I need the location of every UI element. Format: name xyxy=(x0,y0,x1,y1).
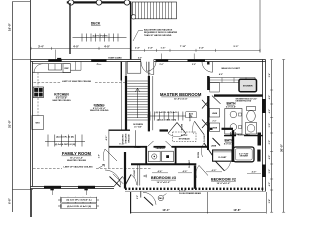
right wall xyxy=(262,60,264,192)
svg-text:8'-0"x5'-0": 8'-0"x5'-0" xyxy=(224,144,234,146)
laundry left wall xyxy=(145,147,147,165)
svg-text:16'-0": 16'-0" xyxy=(8,22,12,31)
svg-text:9'-8": 9'-8" xyxy=(269,199,271,204)
svg-text:W/O: W/O xyxy=(35,123,40,125)
stair right wall xyxy=(148,62,150,76)
svg-text:VAULTED CEILING: VAULTED CEILING xyxy=(90,109,109,112)
pantry nook box xyxy=(108,130,110,147)
deck post 3 xyxy=(124,0,129,5)
bottom dimension line xyxy=(131,212,267,214)
svg-text:(4) 2x6 DFL #2 (N) 4x10: (4) 2x6 DFL #2 (N) 4x10 xyxy=(156,111,178,114)
svg-text:4'-6": 4'-6" xyxy=(105,136,108,141)
stair left wall xyxy=(125,62,127,76)
bath hall wall xyxy=(210,128,213,130)
right upper roof line xyxy=(259,0,261,53)
bedroom2 door dim xyxy=(178,172,192,174)
counter cells right of REF xyxy=(71,69,82,71)
svg-text:SHELVES: SHELVES xyxy=(126,133,128,143)
svg-text:31'-0": 31'-0" xyxy=(8,119,12,128)
svg-text:BEDROOM #2: BEDROOM #2 xyxy=(211,177,236,181)
svg-text:4'-0": 4'-0" xyxy=(219,73,223,76)
svg-text:MASTER BEDROOM: MASTER BEDROOM xyxy=(160,92,202,97)
svg-text:CLOSET: CLOSET xyxy=(189,159,191,168)
svg-text:2'-0": 2'-0" xyxy=(213,120,217,122)
svg-text:BROOM: BROOM xyxy=(129,134,131,142)
svg-text:BATH: BATH xyxy=(224,139,234,143)
svg-text:DINING: DINING xyxy=(94,103,106,107)
svg-text:(4) 2x12 DFL #2 4x12 (N): (4) 2x12 DFL #2 4x12 (N) xyxy=(67,205,91,208)
hall wall left xyxy=(109,129,131,131)
lower stair door leaf xyxy=(144,197,153,206)
hall wall mid xyxy=(160,129,169,131)
walk-in closet shelf left xyxy=(210,83,220,93)
fridge REF xyxy=(63,64,71,73)
family room window 2 xyxy=(78,186,95,189)
deck top rail xyxy=(67,1,132,3)
svg-text:REF: REF xyxy=(65,68,70,70)
flush framed beam note xyxy=(179,189,201,195)
svg-text:5'-0": 5'-0" xyxy=(269,169,271,174)
left dim tick mid xyxy=(13,59,31,61)
svg-text:LAUNDRY: LAUNDRY xyxy=(156,147,166,150)
hall linen closet box xyxy=(213,150,232,161)
svg-text:9'-4": 9'-4" xyxy=(268,73,271,78)
bath2 plumbing wall xyxy=(258,133,262,146)
svg-text:12'-0"x10'-0": 12'-0"x10'-0" xyxy=(217,183,231,185)
bath2 note xyxy=(230,131,251,136)
bottom beam callout row1 xyxy=(58,199,99,201)
bottom beam callout row2 xyxy=(58,205,99,207)
bottom extension lines xyxy=(130,192,132,214)
svg-text:3'-0": 3'-0" xyxy=(98,154,100,158)
svg-text:VAULTED CEILING: VAULTED CEILING xyxy=(52,99,71,102)
svg-text:3'-0": 3'-0" xyxy=(192,64,196,66)
svg-text:VAULTED CEILING: VAULTED CEILING xyxy=(67,159,87,162)
laundry door leaves xyxy=(148,141,154,147)
svg-text:PANTRY: PANTRY xyxy=(122,134,125,143)
cooktop xyxy=(33,87,43,98)
family room bottom wall xyxy=(31,186,115,188)
bedroom3 closet door leaf xyxy=(125,175,132,187)
svg-text:CLOSET: CLOSET xyxy=(189,112,191,121)
lower wall stub xyxy=(140,192,142,198)
master door arc 1 xyxy=(147,62,157,71)
svg-text:1'-6": 1'-6" xyxy=(161,48,166,50)
master toilet xyxy=(247,107,256,111)
svg-text:5'-0": 5'-0" xyxy=(269,123,271,128)
wall oven xyxy=(32,116,44,130)
bedrooms divider wall xyxy=(194,165,196,188)
master closet wall xyxy=(207,62,209,65)
linen box 1 xyxy=(210,109,220,118)
left dim tick top xyxy=(13,1,31,3)
svg-text:2'-8": 2'-8" xyxy=(148,48,153,50)
svg-text:(4) 2x6 4 OB'S #2 (N): (4) 2x6 4 OB'S #2 (N) xyxy=(157,118,177,121)
window center tick kitchen xyxy=(55,50,57,60)
svg-text:10'-8": 10'-8" xyxy=(233,208,241,212)
laundry bottom wall xyxy=(131,163,196,165)
svg-text:CLOSET: CLOSET xyxy=(218,157,227,159)
shower xyxy=(239,79,257,91)
deck post 1 xyxy=(68,0,73,5)
svg-text:LINEN: LINEN xyxy=(211,145,217,147)
svg-text:3'-4": 3'-4" xyxy=(38,44,45,48)
svg-text:BEDROOM #3: BEDROOM #3 xyxy=(151,176,176,180)
stair newel circle xyxy=(131,15,135,19)
svg-text:(4) 2x6 4 OB'S #2 (N): (4) 2x6 4 OB'S #2 (N) xyxy=(55,143,76,146)
linen box 2 xyxy=(210,123,220,132)
stair treads xyxy=(127,81,148,120)
entry closet xyxy=(127,62,141,73)
master tub xyxy=(246,123,257,135)
window master 1 xyxy=(156,59,169,62)
family room door upper xyxy=(105,149,117,161)
bath2 shower xyxy=(234,147,255,162)
lower-left basement wall xyxy=(30,189,32,217)
svg-text:4'-0": 4'-0" xyxy=(268,182,271,187)
bedroom2 dim right xyxy=(247,173,261,175)
family room east edge xyxy=(108,147,110,168)
svg-text:12'-8"x13'-4": 12'-8"x13'-4" xyxy=(174,98,188,101)
svg-text:4'-0": 4'-0" xyxy=(104,44,111,48)
left dimension line xyxy=(12,2,14,213)
svg-text:6'-8": 6'-8" xyxy=(9,197,12,203)
svg-text:LINEN: LINEN xyxy=(212,113,218,115)
right dim line inner xyxy=(271,60,273,213)
bedroom3 closet partition xyxy=(137,164,139,185)
balusters note xyxy=(144,29,178,37)
upper right dimension line xyxy=(131,49,260,51)
deck dimension line xyxy=(31,47,131,49)
hall closet door swing upper xyxy=(213,138,221,146)
svg-text:4 x 1 G: 4 x 1 G xyxy=(179,189,186,192)
svg-text:CLOSET: CLOSET xyxy=(204,133,206,142)
svg-text:4'-0": 4'-0" xyxy=(183,170,188,173)
svg-text:5'-10": 5'-10" xyxy=(119,143,124,145)
master door arc 2 xyxy=(202,62,213,72)
bath2 top wall xyxy=(224,135,236,137)
dining chase wall xyxy=(120,62,122,81)
svg-text:6'-0"x9'-4": 6'-0"x9'-4" xyxy=(226,105,236,108)
svg-text:ATTIC: ATTIC xyxy=(181,134,188,137)
kitchen counter dashed edge xyxy=(37,73,39,87)
master vanity xyxy=(225,109,242,135)
dryer xyxy=(162,151,174,162)
svg-text:BATH: BATH xyxy=(226,101,236,105)
closet door leaf xyxy=(215,161,224,171)
linen door X 2 xyxy=(202,120,210,129)
master beam callout xyxy=(147,115,186,117)
svg-text:KITCHEN: KITCHEN xyxy=(54,93,69,97)
kitchen sink xyxy=(49,64,62,70)
svg-text:LIMIT OF VAULTED CEILING: LIMIT OF VAULTED CEILING xyxy=(62,80,92,83)
svg-text:LINEN: LINEN xyxy=(135,147,142,149)
svg-text:(4) 2x10 DFL #2 (N) 4" (L): (4) 2x10 DFL #2 (N) 4" (L) xyxy=(67,199,92,202)
svg-text:SHOWER: SHOWER xyxy=(240,156,249,158)
family room window 1 xyxy=(44,186,61,189)
svg-text:6'-0": 6'-0" xyxy=(269,140,271,145)
svg-text:FAU: FAU xyxy=(159,197,164,200)
svg-text:4'-6": 4'-6" xyxy=(268,109,271,114)
svg-text:STAIR GUARD: STAIR GUARD xyxy=(108,56,122,59)
window kitchen xyxy=(48,59,61,62)
stair guard line xyxy=(152,76,154,130)
top wall xyxy=(31,59,266,61)
deck stairs xyxy=(132,2,176,19)
stair up arrow xyxy=(137,88,139,118)
svg-text:4x4 P.T. POSTS: 4x4 P.T. POSTS xyxy=(92,35,108,38)
svg-text:SHOWER: SHOWER xyxy=(243,86,253,88)
svg-text:ROOM: ROOM xyxy=(198,152,200,158)
walk-in closet shelf top xyxy=(210,78,255,83)
bath door leaf xyxy=(212,96,221,104)
svg-text:LIMIT OF VAULTED CEILING: LIMIT OF VAULTED CEILING xyxy=(64,165,94,168)
svg-text:4'-6": 4'-6" xyxy=(268,95,271,100)
svg-text:UNOBSTRUCTED: UNOBSTRUCTED xyxy=(236,101,252,103)
svg-text:REQUIRED IF DECK IS GREATER: REQUIRED IF DECK IS GREATER xyxy=(144,31,178,34)
svg-text:@ 7 3/4": @ 7 3/4" xyxy=(134,125,142,128)
svg-text:13'-4": 13'-4" xyxy=(162,208,170,212)
window master 2 xyxy=(188,59,206,62)
svg-text:5'-0": 5'-0" xyxy=(137,195,139,199)
deck left wall xyxy=(30,0,32,60)
closet/bath wall xyxy=(214,94,263,96)
shear wall segment xyxy=(91,59,106,62)
svg-text:WALK-IN CLOSET: WALK-IN CLOSET xyxy=(221,67,240,70)
svg-text:THAN 30" ABOVE GROUND: THAN 30" ABOVE GROUND xyxy=(144,34,172,37)
family room door (right end) xyxy=(114,177,123,187)
left wall xyxy=(30,60,32,190)
svg-text:2'-8": 2'-8" xyxy=(135,48,140,50)
right wall window 3 xyxy=(262,165,266,178)
svg-text:4'-6": 4'-6" xyxy=(158,170,163,173)
kitchen counter band xyxy=(32,64,70,73)
washer xyxy=(149,151,161,162)
right dim line outer xyxy=(283,60,285,213)
bedroom dotted bearing wall xyxy=(125,188,265,190)
svg-text:FLUSH FRAMED WALL: FLUSH FRAMED WALL xyxy=(230,134,251,137)
hall closet column wall xyxy=(207,130,209,150)
svg-text:10'-0"x10'-0": 10'-0"x10'-0" xyxy=(157,182,171,184)
family room door lower xyxy=(110,177,121,188)
svg-text:LINEN: LINEN xyxy=(212,127,218,129)
svg-text:4'-0": 4'-0" xyxy=(252,171,257,174)
entry door arc xyxy=(141,62,154,75)
svg-text:CLOSET: CLOSET xyxy=(134,169,136,178)
deck post 2 xyxy=(96,0,101,5)
svg-text:BALUSTERS AND RAILINGS: BALUSTERS AND RAILINGS xyxy=(144,29,173,32)
deck divider wall xyxy=(69,3,71,54)
svg-text:7'-10": 7'-10" xyxy=(180,46,186,48)
bedroom2 door dim b xyxy=(206,171,222,173)
svg-text:FAMILY ROOM: FAMILY ROOM xyxy=(62,151,92,156)
svg-text:FLUSH FRAMED BEAM: FLUSH FRAMED BEAM xyxy=(179,192,201,195)
attic storage box xyxy=(173,132,197,142)
hall door master xyxy=(195,121,204,134)
svg-text:3'-0": 3'-0" xyxy=(159,64,163,66)
hall door X 1 xyxy=(168,123,177,134)
svg-text:ROOM: ROOM xyxy=(182,124,184,131)
bedroom3 door dim xyxy=(152,172,168,174)
right wall window 1 xyxy=(262,99,266,113)
svg-text:DECK: DECK xyxy=(91,22,101,26)
svg-text:9'-0": 9'-0" xyxy=(234,46,239,48)
svg-text:4'-0": 4'-0" xyxy=(268,155,271,160)
hall bottom wall xyxy=(109,146,147,148)
entry door opening xyxy=(141,59,154,62)
svg-text:(4) 2x6 DFL #2 (N): (4) 2x6 DFL #2 (N) xyxy=(56,136,74,139)
left dim tick bottom xyxy=(13,189,34,191)
svg-text:30'-0": 30'-0" xyxy=(279,143,283,152)
laundry right wall xyxy=(175,147,177,165)
svg-text:4'-0": 4'-0" xyxy=(73,44,80,48)
bedroom2 door arc xyxy=(199,165,208,175)
bath2 wall left xyxy=(232,131,234,163)
hall closet wall xyxy=(124,152,126,189)
svg-text:STORAGE: STORAGE xyxy=(179,138,191,141)
family room beam callout xyxy=(45,140,85,142)
svg-text:2'-8": 2'-8" xyxy=(199,48,204,50)
deck right wall xyxy=(130,3,132,60)
linen door X 1 xyxy=(202,100,210,109)
decking joist symbol xyxy=(73,37,127,39)
svg-text:4'-0": 4'-0" xyxy=(212,169,217,172)
FAU circle note xyxy=(158,195,163,200)
